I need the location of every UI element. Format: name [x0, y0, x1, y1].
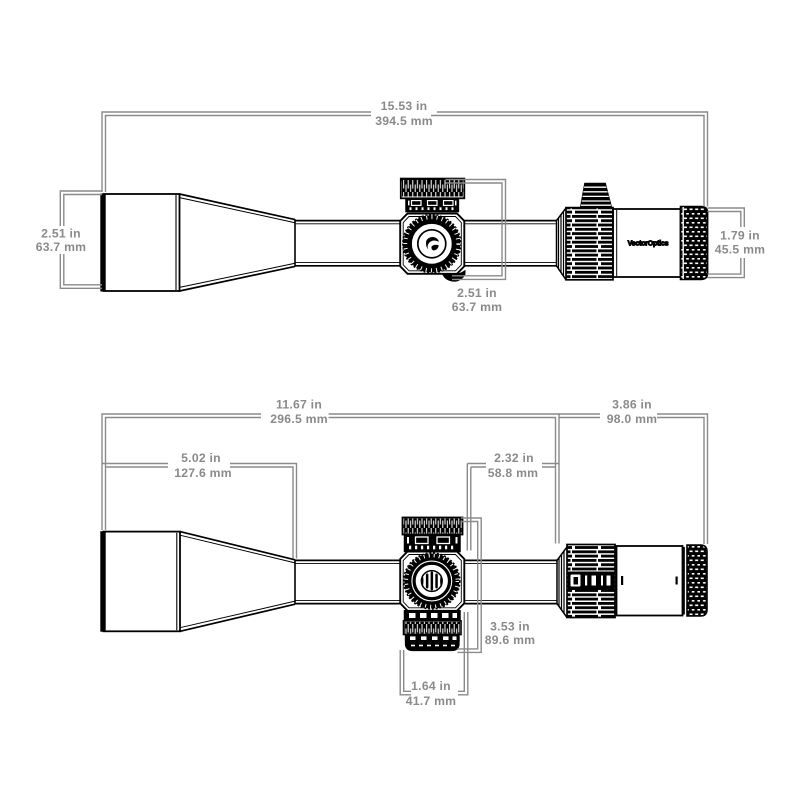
windage knob marks band (top view, lower)	[405, 611, 461, 621]
elevation base index windows	[412, 201, 454, 206]
objective front ring (thick left edge)	[100, 194, 105, 292]
dim objective diameter 2.51in outer line	[60, 191, 102, 288]
main tube left segment bottom	[295, 265, 400, 267]
dim eyepiece diameter 1.79in inner line	[708, 212, 741, 275]
cone/tube step	[294, 219, 296, 267]
objective rear double edge	[175, 195, 177, 290]
zoom ring taper step (top view)	[557, 547, 567, 618]
diopter separation ring	[682, 207, 684, 279]
windage knob knurl slits	[405, 217, 458, 270]
svg-text:2.32 in: 2.32 in	[494, 451, 534, 465]
windage knob logo swirl	[426, 237, 439, 250]
eyepiece body (top view)	[617, 546, 683, 616]
svg-text:127.6 mm: 127.6 mm	[174, 466, 232, 480]
turret saddle (top view)	[400, 552, 464, 611]
windage knob outer teeth	[403, 215, 461, 273]
dim turret height 2.51in outer line	[446, 180, 506, 280]
dim objective diameter 2.51in inner line	[64, 195, 102, 285]
main tube right segment top	[464, 220, 556, 222]
svg-text:15.53 in: 15.53 in	[381, 99, 428, 113]
eyepiece alignment marks	[621, 576, 678, 585]
svg-text:2.51 in: 2.51 in	[41, 227, 81, 241]
parallax knob marks band (top view, upper)	[405, 535, 461, 552]
dim 11.67in inner line	[106, 418, 556, 544]
dim overall length 15.53in outer line	[102, 112, 708, 207]
elevation turret middle white ring	[412, 561, 452, 601]
main tube left segment top	[295, 220, 400, 222]
svg-text:2.51 in: 2.51 in	[457, 286, 497, 300]
svg-text:45.5 mm: 45.5 mm	[715, 243, 766, 257]
dim eyepiece diameter 1.79in outer line	[708, 208, 745, 278]
diopter ring (top view, knurled)	[687, 545, 707, 616]
dim turret width 1.64in outer line	[400, 612, 468, 695]
eyepiece rear ring (top view)	[683, 547, 685, 615]
zoom ring taper step	[557, 208, 567, 280]
dim turret span 3.53in inner line	[458, 522, 478, 649]
svg-text:98.0 mm: 98.0 mm	[607, 412, 658, 426]
diopter ring (knurled)	[681, 207, 708, 280]
svg-text:394.5 mm: 394.5 mm	[375, 114, 433, 128]
elevation turret side crescents	[421, 575, 443, 588]
zoom ring body (top view, knurled)	[567, 545, 615, 618]
zoom ring magnification scale band	[568, 572, 614, 591]
windage knob inner ring	[418, 230, 446, 258]
taper cone outer bottom	[180, 266, 296, 291]
elevation turret grip bars	[426, 572, 438, 591]
svg-text:3.53 in: 3.53 in	[490, 620, 530, 634]
dim overall length 15.53in inner line	[106, 116, 705, 207]
svg-text:3.86 in: 3.86 in	[612, 398, 652, 412]
svg-text:5.02 in: 5.02 in	[181, 451, 221, 465]
svg-text:296.5 mm: 296.5 mm	[270, 412, 328, 426]
elevation turret seen from above: outer knurl ring	[410, 559, 454, 603]
zoom ring body (knurled)	[566, 208, 613, 280]
magnification throw fin	[581, 183, 612, 207]
objective bell (top view)	[104, 532, 181, 632]
objective front ring (thick left edge, top view)	[100, 531, 105, 632]
taper cone (top view)	[180, 532, 295, 560]
main tube left segment (top view)	[295, 559, 400, 561]
main tube right segment (top view)	[464, 559, 557, 561]
svg-text:VectorOptics: VectorOptics	[628, 241, 669, 248]
elevation turret cap (knurled)	[401, 179, 465, 199]
svg-text:63.7 mm: 63.7 mm	[36, 240, 87, 254]
elevation turret outer teeth	[404, 553, 460, 609]
windage knob cap end (top view, lower)	[406, 635, 460, 643]
dim 2.32in outer line	[467, 464, 559, 551]
dim 3.86in inner line	[559, 418, 704, 545]
elevation turret inner disc	[419, 568, 445, 594]
parallax knob knurled cap (top view, upper)	[403, 518, 463, 535]
dim 5.02in outer line	[102, 464, 297, 559]
cone/tube step (top view)	[294, 559, 296, 604]
saddle lock lever lobe	[442, 270, 466, 282]
elevation turret knurl slits	[406, 555, 457, 606]
svg-text:63.7 mm: 63.7 mm	[452, 300, 503, 314]
dim 11.67in outer line	[102, 414, 559, 544]
dim 5.02in inner line	[106, 467, 294, 559]
taper cone inner top	[180, 198, 296, 223]
dim turret span 3.53in outer line	[458, 518, 482, 652]
main tube right segment bottom	[464, 265, 556, 267]
eyepiece left double edge	[616, 210, 618, 276]
svg-text:1.64 in: 1.64 in	[411, 679, 451, 693]
taper cone outer top	[180, 194, 296, 220]
svg-text:89.6 mm: 89.6 mm	[485, 633, 536, 647]
dim 2.32in inner line	[471, 467, 556, 551]
eyepiece body	[613, 209, 681, 277]
dim 3.86in outer line	[559, 414, 708, 544]
taper cone inner bottom	[180, 263, 296, 287]
windage knob knurled band (top view, lower)	[404, 621, 462, 635]
svg-text:1.79 in: 1.79 in	[720, 229, 760, 243]
svg-text:11.67 in: 11.67 in	[276, 398, 322, 412]
objective bell (side view)	[104, 194, 180, 291]
dim turret width 1.64in inner line	[404, 612, 465, 691]
windage side knob outer knurl ring	[408, 220, 456, 268]
dim turret height 2.51in inner line	[446, 183, 503, 276]
elevation turret inner ring	[421, 571, 442, 592]
svg-text:41.7 mm: 41.7 mm	[406, 694, 457, 708]
turret saddle (chamfered box)	[400, 214, 464, 274]
svg-text:58.8 mm: 58.8 mm	[488, 466, 539, 480]
zoom ring rib edge	[559, 211, 564, 276]
objective rear double edge (top view)	[176, 533, 178, 630]
elevation turret base band	[406, 198, 458, 211]
